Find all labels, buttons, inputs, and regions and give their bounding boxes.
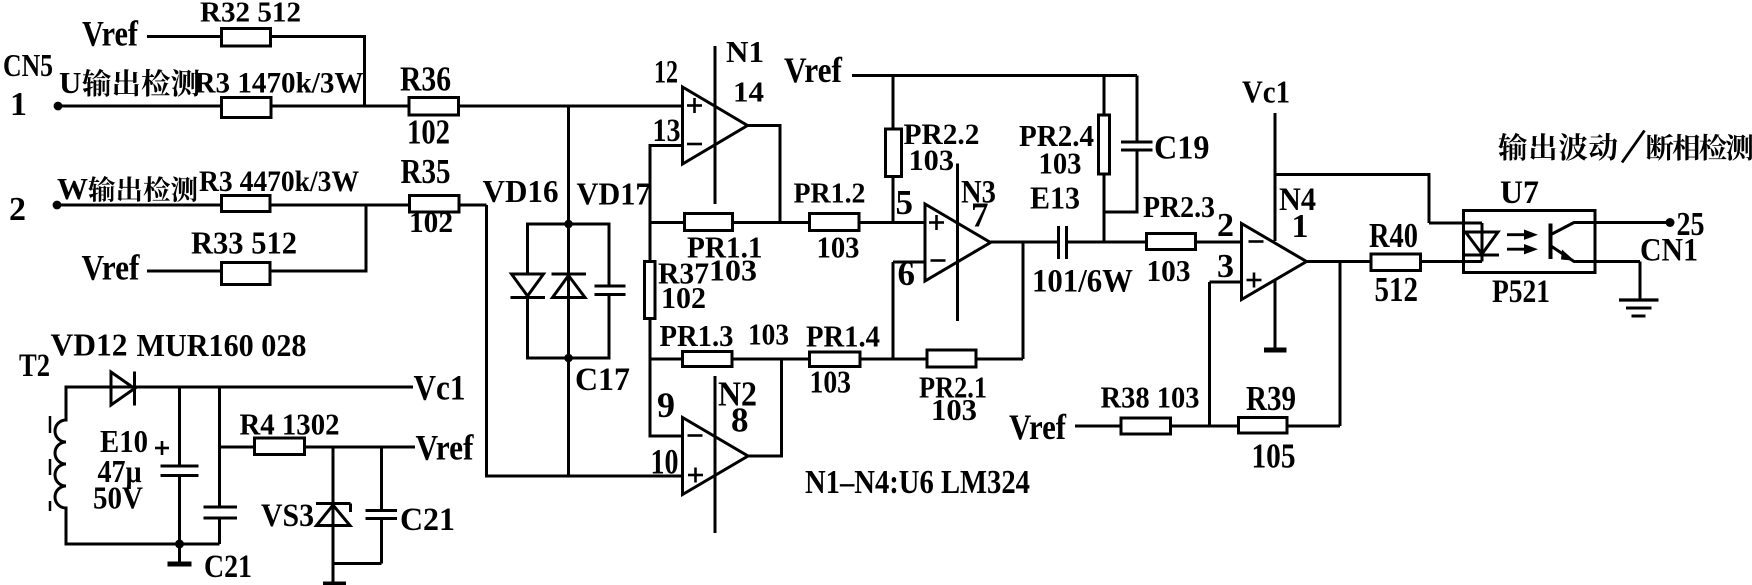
svg-text:103: 103	[810, 364, 852, 400]
wire E13 to PR2.3	[1067, 241, 1147, 244]
svg-text:1: 1	[10, 86, 27, 123]
wire Vref to R33	[147, 270, 222, 273]
svg-text:U: U	[59, 65, 81, 100]
op-amp N3	[925, 204, 991, 281]
svg-text:103: 103	[931, 392, 977, 427]
label 103 under PR1.4	[810, 364, 852, 400]
wire feedback row2	[650, 358, 1023, 361]
resistor R35	[410, 196, 460, 213]
wire PR2.2 column	[892, 76, 895, 223]
label 7	[971, 196, 989, 235]
node terminal 1	[54, 102, 63, 111]
resistor R39	[1239, 418, 1288, 434]
wire Vc1 top	[65, 386, 414, 389]
label Vref mid-left	[82, 248, 141, 288]
label 103 under PR1.2	[817, 230, 860, 265]
svg-text:C21: C21	[400, 502, 455, 538]
wire pin10 line	[485, 475, 683, 478]
svg-text:105: 105	[1252, 437, 1296, 476]
ground N4	[1264, 348, 1287, 353]
svg-text:PR1.4: PR1.4	[806, 319, 880, 354]
label 6	[898, 254, 916, 293]
svg-text:3: 3	[1217, 248, 1234, 285]
junction dot VD top	[564, 220, 573, 229]
label N1-N4:U6 LM324	[805, 464, 1030, 501]
svg-text:R40: R40	[1369, 216, 1418, 255]
svg-text:C19: C19	[1154, 130, 1210, 167]
svg-text:102: 102	[661, 280, 706, 315]
op-amp N1	[683, 87, 748, 164]
label P521	[1492, 274, 1550, 310]
svg-text:103: 103	[709, 253, 757, 288]
svg-text:R33 512: R33 512	[191, 226, 297, 261]
resistor R33	[222, 263, 271, 285]
light arrow 1	[1507, 230, 1538, 240]
svg-text:1: 1	[1292, 208, 1309, 245]
resistor PR1.2	[810, 214, 860, 231]
label 10	[651, 442, 679, 482]
label W output detect	[57, 171, 197, 206]
resistor R4	[255, 438, 305, 455]
label Vref at R38	[1009, 407, 1067, 447]
svg-text:PR1.2: PR1.2	[794, 179, 866, 210]
wire pin3	[1210, 282, 1242, 426]
wire feedback row1	[650, 221, 925, 224]
svg-text:7: 7	[971, 196, 989, 235]
label VD17	[577, 176, 651, 212]
wire VD bottom rail	[528, 357, 610, 360]
label 50V	[93, 480, 143, 516]
wire Vc1 to U7	[1275, 173, 1482, 223]
svg-text:12: 12	[654, 55, 678, 91]
resistor R37	[645, 262, 656, 319]
wire collector to 25	[1574, 221, 1668, 224]
wire N2 power	[714, 376, 717, 533]
capacitor E13	[1059, 226, 1067, 259]
svg-text:101/6W: 101/6W	[1032, 264, 1133, 300]
svg-text:C17: C17	[575, 362, 630, 398]
label T2	[19, 348, 50, 384]
ground C21	[168, 562, 192, 567]
label PR2.3	[1143, 190, 1215, 224]
pin 1 label	[10, 86, 27, 123]
wire R39 feedback column	[1339, 260, 1342, 426]
label 5	[896, 183, 914, 222]
label R33 512	[191, 226, 297, 261]
wire R38 row	[1075, 425, 1340, 428]
svg-text:5: 5	[896, 183, 914, 222]
label C17	[575, 362, 630, 398]
resistor R36	[409, 98, 459, 116]
label PR2.2	[904, 118, 980, 151]
label PR2.4	[1019, 119, 1094, 153]
label 101/6W	[1032, 264, 1133, 300]
label VS3	[261, 498, 314, 534]
wire N1 power	[714, 46, 717, 204]
label 12	[654, 55, 678, 91]
wire W line	[57, 204, 487, 207]
svg-text:MUR160 028: MUR160 028	[137, 327, 307, 363]
svg-text:VD16: VD16	[483, 173, 559, 209]
label R40	[1369, 216, 1418, 255]
label C21 right	[400, 502, 455, 538]
svg-text:103: 103	[817, 230, 860, 265]
label C21 bottom	[204, 549, 252, 585]
wire U line	[58, 105, 683, 108]
connector CN5 label	[3, 47, 53, 83]
label 8	[731, 401, 749, 440]
capacitor C17	[595, 223, 626, 360]
label 103 under PR2.2	[909, 144, 955, 177]
label R32 512	[200, 0, 301, 29]
wire ground stub C21	[178, 544, 181, 562]
junction dot VD bottom	[564, 354, 573, 363]
label 3	[1217, 248, 1234, 285]
label C19	[1154, 130, 1210, 167]
resistor R34	[222, 196, 271, 212]
label 25	[1677, 206, 1705, 243]
wire R35 output down	[485, 205, 488, 478]
resistor R32	[222, 29, 271, 47]
label N4	[1279, 182, 1316, 218]
label 103 right of PR1.3	[748, 317, 789, 352]
label E13	[1030, 180, 1080, 216]
svg-text:CN5: CN5	[3, 47, 53, 83]
wire N4 power	[1274, 113, 1277, 241]
resistor PR2.3	[1147, 234, 1196, 250]
op-amp N2	[683, 418, 749, 495]
label 102 under R36	[407, 113, 450, 152]
label 103 under PR2.4	[1039, 147, 1082, 181]
label Vref top	[784, 50, 843, 90]
label U7	[1500, 175, 1539, 211]
junction dot bottom rail	[175, 540, 184, 549]
terminal dot 25	[1666, 218, 1675, 227]
label R38 103	[1101, 380, 1200, 415]
label Vc1 right	[414, 368, 466, 408]
svg-text:Vref: Vref	[416, 428, 475, 468]
svg-text:2: 2	[1217, 207, 1234, 244]
node terminal 2	[53, 201, 62, 210]
label R37	[658, 256, 709, 291]
svg-text:P521: P521	[1492, 274, 1550, 310]
label N3	[961, 175, 996, 211]
label MUR160 028	[137, 327, 307, 363]
svg-text:R36: R36	[400, 60, 451, 99]
label 103 right of R37	[709, 253, 757, 288]
light arrow 2	[1507, 244, 1538, 254]
svg-text:N1: N1	[726, 34, 764, 69]
wire pin9	[650, 435, 683, 438]
label 9	[657, 385, 675, 425]
svg-text:R38 103: R38 103	[1101, 380, 1200, 415]
svg-text:R35: R35	[401, 152, 451, 191]
svg-text:102: 102	[407, 113, 450, 152]
label Vc1 at N4	[1242, 74, 1290, 110]
svg-text:Vc1: Vc1	[414, 368, 466, 408]
pin 2 label	[9, 191, 26, 228]
svg-text:T2: T2	[19, 348, 50, 384]
svg-text:R4 1302: R4 1302	[240, 407, 340, 442]
label E10	[100, 423, 148, 459]
resistor R31	[222, 98, 272, 118]
label R4 1302	[240, 407, 340, 442]
svg-text:103: 103	[1147, 253, 1191, 288]
label Vref right	[416, 428, 475, 468]
resistor PR2.4	[1099, 115, 1110, 174]
svg-text:103: 103	[1039, 147, 1082, 181]
wire R33 to W line	[270, 205, 366, 273]
transformer T2 winding	[55, 387, 66, 544]
svg-text:50V: 50V	[93, 480, 143, 516]
label PR1.2	[794, 179, 866, 210]
wire pin13	[650, 144, 683, 438]
wire N3 output	[991, 241, 1059, 244]
label U output detect	[59, 65, 199, 100]
wire Vref to R32	[147, 35, 222, 38]
svg-text:PR2.3: PR2.3	[1143, 190, 1215, 224]
label N1	[726, 34, 764, 69]
resistor R38	[1121, 418, 1171, 434]
wire N1 output	[748, 124, 781, 223]
wire N3 power	[956, 164, 959, 322]
wire Vref rail	[852, 74, 1137, 77]
svg-text:512: 512	[1375, 270, 1419, 309]
svg-text:VD17: VD17	[577, 176, 651, 212]
svg-text:N1–N4:U6 LM324: N1–N4:U6 LM324	[805, 464, 1030, 501]
svg-text:Vref: Vref	[784, 50, 843, 90]
zener VS3	[316, 504, 351, 526]
svg-text:PR1.3: PR1.3	[660, 318, 734, 353]
capacitor E10	[155, 387, 199, 544]
svg-text:103: 103	[909, 144, 955, 177]
label VD12	[51, 327, 128, 363]
svg-text:2: 2	[9, 191, 26, 228]
svg-text:8: 8	[731, 401, 749, 440]
label 1 at N4	[1292, 208, 1309, 245]
wire bottom rail	[65, 543, 220, 546]
svg-text:W: W	[57, 171, 88, 206]
transformer core dashes	[49, 416, 52, 511]
svg-text:Vref: Vref	[82, 14, 139, 54]
svg-text:C21: C21	[204, 549, 252, 585]
wire emitter to ground	[1574, 262, 1641, 301]
label R3 4470k/3W	[199, 165, 359, 198]
svg-text:14: 14	[733, 77, 764, 109]
label PR1.4	[806, 319, 880, 354]
label 14	[733, 77, 764, 109]
label R39	[1246, 379, 1296, 418]
label PR1.1	[687, 230, 763, 265]
label 105 under R39	[1252, 437, 1296, 476]
resistor PR2.1	[927, 350, 976, 367]
svg-text:Vref: Vref	[1009, 407, 1067, 447]
svg-text:VS3: VS3	[261, 498, 314, 534]
label VD16	[483, 173, 559, 209]
svg-text:Vc1: Vc1	[1242, 74, 1290, 110]
phototransistor in U7	[1551, 223, 1575, 262]
wire VD center column	[567, 106, 570, 476]
wire VS3 column	[332, 447, 335, 582]
ground VS3	[323, 582, 346, 585]
label 103 under PR2.3	[1147, 253, 1191, 288]
svg-text:U7: U7	[1500, 175, 1539, 211]
label title	[1498, 131, 1752, 163]
svg-text:103: 103	[748, 317, 789, 352]
diode VD17	[552, 274, 587, 298]
label R35	[401, 152, 451, 191]
label 103 under PR2.1	[931, 392, 977, 427]
resistor PR1.3	[683, 352, 733, 367]
label 47u	[98, 453, 142, 489]
ground CN1	[1619, 300, 1659, 316]
label 102 under R35	[409, 206, 453, 239]
op-amp N4	[1242, 224, 1307, 300]
diode VD16	[511, 223, 546, 360]
wire N4 output	[1307, 260, 1483, 263]
svg-text:CN1: CN1	[1640, 233, 1698, 269]
svg-text:102: 102	[409, 206, 453, 239]
capacitor C19	[1104, 76, 1153, 214]
svg-text:R3 1470k/3W: R3 1470k/3W	[195, 67, 364, 100]
label PR1.3	[660, 318, 734, 353]
diode VD12	[111, 372, 135, 406]
wire PR2.4 column	[1103, 76, 1106, 243]
label 512 under R40	[1375, 270, 1419, 309]
label PR2.1	[919, 370, 987, 405]
resistor R40	[1371, 254, 1421, 271]
svg-text:9: 9	[657, 385, 675, 425]
LED in U7	[1465, 223, 1499, 262]
capacitor C21 mid	[204, 387, 238, 544]
svg-text:10: 10	[651, 442, 679, 482]
wire N2 output	[748, 358, 782, 458]
svg-text:R39: R39	[1246, 379, 1296, 418]
label CN1	[1640, 233, 1698, 269]
svg-text:VD12: VD12	[51, 327, 128, 363]
resistor PR1.4	[810, 352, 861, 367]
label 13	[653, 113, 681, 149]
wire PR2.3 to N4	[1196, 241, 1242, 244]
label 2	[1217, 207, 1234, 244]
label R3 1470k/3W	[195, 67, 364, 100]
svg-text:Vref: Vref	[82, 248, 141, 288]
label Vref top-left	[82, 14, 139, 54]
wire pin6	[893, 262, 925, 359]
capacitor C21 right	[333, 447, 397, 564]
resistor PR2.2	[886, 129, 902, 177]
svg-text:13: 13	[653, 113, 681, 149]
resistor PR1.1	[685, 214, 733, 231]
svg-text:R3 4470k/3W: R3 4470k/3W	[199, 165, 359, 198]
wire VD top rail	[528, 223, 610, 226]
wire R4 row	[220, 446, 416, 449]
wire N4 ground stub	[1274, 280, 1277, 348]
wire N3 feedback column	[1022, 242, 1025, 359]
label R36	[400, 60, 451, 99]
svg-text:R32 512: R32 512	[200, 0, 301, 29]
wire R32 to U line	[271, 35, 365, 106]
optocoupler U7 box	[1464, 211, 1596, 273]
label 102 under R37	[661, 280, 706, 315]
label N2	[718, 375, 757, 414]
svg-text:6: 6	[898, 254, 916, 293]
svg-text:E13: E13	[1030, 180, 1080, 216]
